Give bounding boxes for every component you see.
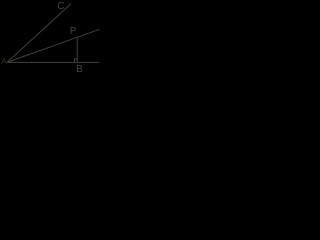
wire segment PB (vertical from P to base) <box>76 37 78 62</box>
node P label <box>70 27 77 37</box>
wire segment AP (shallow ray through P) <box>7 29 100 62</box>
node C label <box>57 2 64 12</box>
node A label <box>1 57 7 66</box>
wire segment AC (steep ray) <box>7 4 71 63</box>
right-angle mark at B <box>75 59 78 63</box>
wire segment AB (horizontal base line) <box>7 61 99 63</box>
node B label <box>76 65 83 75</box>
